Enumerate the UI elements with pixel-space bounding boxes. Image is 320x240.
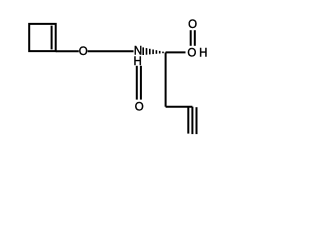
svg-text:O: O	[135, 101, 144, 113]
hashed wedge N to stereocenter	[143, 47, 163, 55]
formyl C=O double bond	[136, 66, 138, 100]
wire ring to O	[56, 50, 79, 52]
svg-text:H: H	[134, 56, 142, 68]
wire O to N	[88, 50, 134, 52]
wire stereocenter down	[165, 52, 167, 106]
alkyne triple bond	[187, 107, 189, 134]
svg-text:H: H	[199, 47, 207, 59]
svg-text:O: O	[79, 46, 88, 58]
svg-text:O: O	[187, 47, 196, 59]
svg-text:O: O	[188, 19, 197, 31]
carboxyl C=O double bond	[190, 30, 192, 46]
ring double bond (inner line)	[51, 26, 53, 50]
bond stereocenter to OH	[166, 51, 186, 53]
wire CH2 to alkyne	[166, 106, 193, 108]
cyclobutene ring	[29, 24, 56, 51]
